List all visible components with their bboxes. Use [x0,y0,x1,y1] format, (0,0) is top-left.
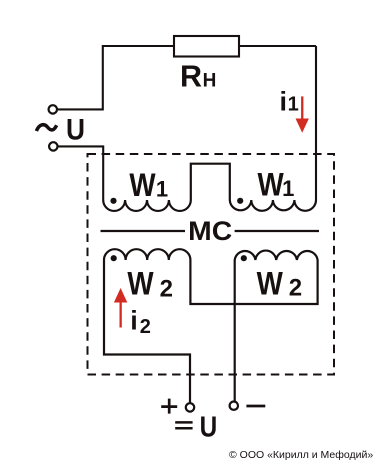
svg-text:2: 2 [160,275,173,302]
svg-text:1: 1 [156,176,168,201]
svg-text:U: U [66,114,85,147]
svg-text:W: W [127,265,154,301]
svg-text:H: H [203,71,217,92]
svg-text:i: i [280,86,288,116]
svg-text:W: W [258,167,285,203]
svg-text:W: W [129,167,156,203]
svg-text:MC: MC [188,216,232,246]
svg-text:i: i [130,306,138,336]
svg-text:© ООО «Кирилл и Мефодий»: © ООО «Кирилл и Мефодий» [229,449,373,461]
svg-text:W: W [257,265,284,301]
svg-text:2: 2 [140,316,151,338]
svg-text:1: 1 [288,93,299,115]
svg-text:1: 1 [282,176,294,201]
svg-text:2: 2 [289,274,302,301]
svg-text:R: R [180,60,202,94]
svg-text:U: U [200,412,218,444]
